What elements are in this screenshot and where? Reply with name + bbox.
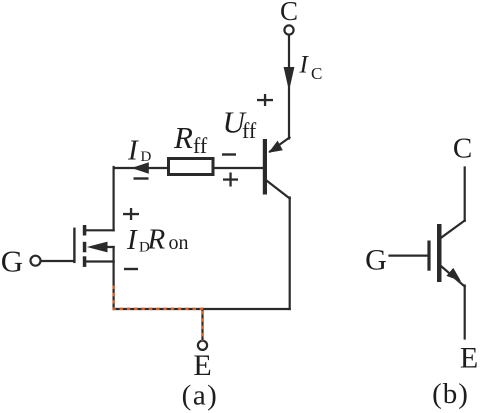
wire: left vertical source segment to bottom [112, 247, 114, 309]
svg-text:(b): (b) [432, 378, 469, 410]
wire: gate lead of M1 [42, 260, 75, 262]
wire: gate lead (b) [390, 255, 428, 257]
transistor Q1 base bar [263, 139, 267, 195]
wire: right vertical collector to bottom [289, 198, 291, 310]
arrowhead: emitter arrow (b) pointing down-right [446, 268, 461, 281]
arrowhead: M1 body arrow pointing left [87, 242, 108, 253]
svg-text:I: I [299, 52, 310, 79]
svg-text:G: G [365, 244, 387, 277]
wire: I_D horizontal left segment [114, 167, 168, 169]
IGBT gate bar (b) [427, 241, 430, 271]
MOSFET M1 channel bar (body) [83, 242, 87, 253]
wire: MOSFET body horizontal [95, 246, 114, 248]
terminal circle E [198, 341, 207, 350]
svg-text:ff: ff [193, 133, 208, 158]
wire: MOSFET source horizontal [86, 260, 114, 262]
wire: emitter diagonal into Q1 bar [270, 138, 290, 152]
svg-text:R: R [173, 120, 193, 155]
wire: emitter diagonal (b) [442, 267, 465, 287]
wire: collector vertical (b) [464, 168, 466, 221]
wire: left vertical drain segment [112, 167, 114, 230]
svg-text:C: C [280, 0, 298, 26]
wire: E stub [201, 309, 203, 341]
terminal circle G [31, 256, 41, 266]
plus sign near emitter [257, 94, 273, 106]
current arrow I_C [284, 67, 295, 91]
arrowhead: Q1 emitter (points into bar) [269, 141, 283, 153]
red dashed highlight along bottom-left wires [114, 286, 206, 342]
minus under I_D R_on [124, 268, 138, 270]
resistor R_ff [169, 159, 214, 175]
svg-text:(a): (a) [182, 380, 219, 412]
minus above base wire (right of resistor) [222, 153, 236, 155]
MOSFET M1 channel bar (drain) [83, 225, 87, 236]
svg-text:R: R [147, 224, 166, 256]
terminal circle C [284, 25, 293, 34]
wire: bottom horizontal [114, 308, 290, 310]
plus below base wire [223, 173, 238, 187]
minus under I_D wire [134, 177, 149, 179]
IGBT main bar (b) [437, 224, 442, 282]
svg-text:I: I [127, 135, 139, 167]
wire: collector diagonal of Q1 [267, 181, 290, 199]
MOSFET M1 channel bar (source) [83, 256, 87, 267]
arrowhead: I_D arrow pointing left on wire [132, 162, 149, 174]
wire: MOSFET drain horizontal [86, 229, 114, 231]
plus above I_D R_on [123, 208, 139, 220]
svg-text:G: G [1, 244, 23, 279]
svg-text:E: E [193, 349, 211, 382]
svg-text:D: D [141, 149, 152, 165]
wire: emitter vertical (b) [464, 286, 466, 339]
svg-text:on: on [169, 232, 189, 254]
svg-text:ff: ff [242, 118, 257, 143]
wire: C terminal vertical (PNP emitter lead) [288, 36, 290, 139]
gate bar of MOSFET M1 [73, 229, 75, 262]
svg-text:I: I [126, 224, 138, 256]
svg-text:C: C [311, 64, 322, 83]
svg-text:E: E [460, 342, 478, 375]
svg-text:C: C [453, 133, 472, 165]
wire: collector diagonal (b) [441, 221, 465, 238]
wire: base wire from resistor to Q1 [214, 167, 263, 169]
